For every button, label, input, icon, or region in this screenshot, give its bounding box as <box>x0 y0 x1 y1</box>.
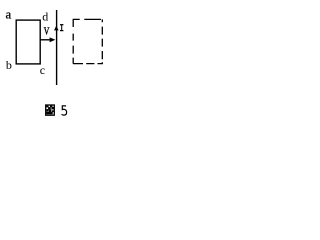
caption glyph 图 (drawn) <box>46 105 55 115</box>
svg-text:c: c <box>40 63 45 77</box>
wire (straight conductor) <box>56 10 58 85</box>
rectangular loop abcd <box>16 20 40 64</box>
svg-text:b: b <box>6 58 12 72</box>
svg-text:V: V <box>44 25 50 36</box>
velocity arrow <box>41 37 56 42</box>
caption digit 5 (drawn) <box>62 106 67 115</box>
label I <box>60 25 63 31</box>
svg-text:a: a <box>6 7 12 22</box>
dashed rectangle region <box>73 19 103 63</box>
svg-text:d: d <box>42 10 48 24</box>
current arrow on wire <box>54 26 59 31</box>
